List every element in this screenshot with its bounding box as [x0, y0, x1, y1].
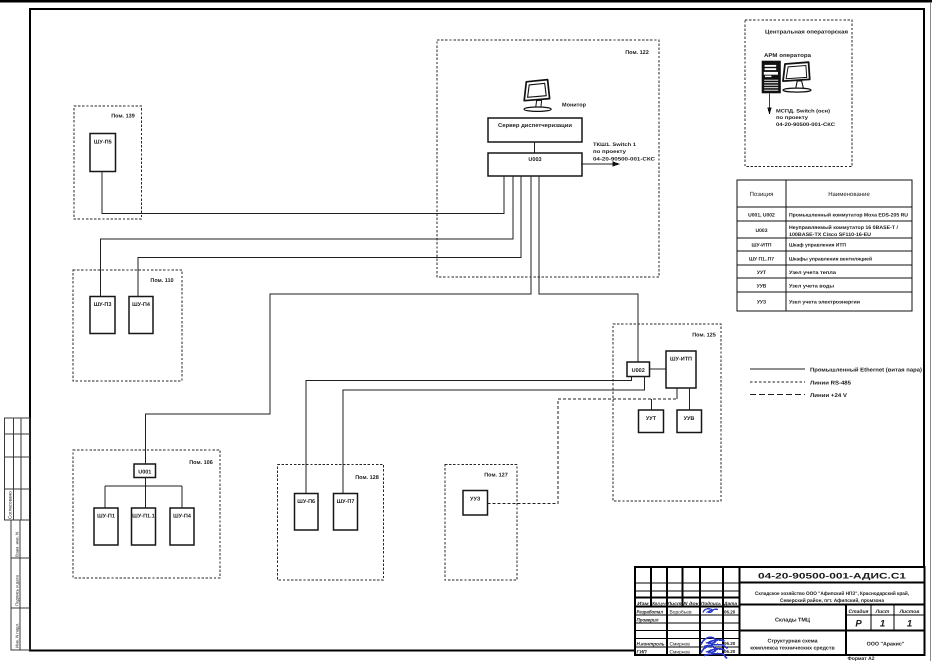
legend RS-485 line: [750, 381, 805, 383]
wire to ШУ-П1: [104, 486, 106, 508]
svg-text:Узел учета электроэнергии: Узел учета электроэнергии: [789, 300, 860, 306]
svg-text:06.20: 06.20: [724, 649, 736, 654]
meter УУВ: [677, 410, 702, 433]
svg-text:Смирнов: Смирнов: [670, 641, 691, 647]
room box Пом. 122: [437, 40, 659, 277]
wire branch to УУТ: [651, 399, 653, 410]
svg-text:Линии +24 V: Линии +24 V: [810, 393, 847, 399]
svg-text:Неуправляемый коммутатор 16 0B: Неуправляемый коммутатор 16 0BASE-T /: [789, 225, 899, 231]
svg-text:Сервер диспетчеризации: Сервер диспетчеризации: [498, 123, 572, 129]
svg-text:Н.контроль: Н.контроль: [637, 642, 665, 648]
svg-text:Центральная операторская: Центральная операторская: [765, 30, 848, 36]
room box Центральная операторская: [745, 20, 852, 167]
meter УУЗ: [463, 491, 488, 516]
signature Воробьев: [703, 609, 718, 613]
svg-text:Пом. 128: Пом. 128: [355, 475, 379, 481]
svg-text:Складское хозяйство ООО "Афипс: Складское хозяйство ООО "Афипский НПЗ", …: [755, 591, 910, 597]
svg-text:Листов: Листов: [899, 609, 920, 615]
svg-text:04-20-90500-001-АДИС.С1: 04-20-90500-001-АДИС.С1: [758, 572, 907, 581]
svg-text:Наименование: Наименование: [828, 191, 870, 198]
workstation icon: PC tower: [763, 62, 781, 93]
svg-text:ШУ-П3: ШУ-П3: [94, 302, 112, 308]
cabinet ШУ-П5: [90, 134, 116, 172]
svg-text:ГИП: ГИП: [637, 650, 648, 656]
svg-text:06.20: 06.20: [724, 641, 736, 646]
cell Инв. N подл.: [11, 608, 30, 650]
svg-text:Пом. 125: Пом. 125: [692, 333, 716, 339]
top border line: [0, 0, 932, 3]
switch U002: [627, 362, 650, 377]
svg-text:1: 1: [880, 619, 885, 630]
switch U003: [488, 153, 582, 176]
svg-text:1: 1: [907, 619, 912, 630]
server box Сервер диспетчеризации: [488, 118, 582, 142]
cabinet ШУ-П6: [295, 494, 319, 531]
wire U003 to U001: [146, 176, 532, 464]
cabinet ШУ-П1: [94, 508, 118, 545]
room box Пом. 139: [74, 106, 142, 219]
signature ГИП: [701, 646, 727, 658]
svg-text:ШУ-ИТП: ШУ-ИТП: [670, 357, 692, 363]
header row Изм Кол.уч Лист N док Подпись Дата: [637, 601, 737, 606]
svg-text:Пом. 139: Пом. 139: [111, 114, 135, 120]
cabinet ШУ-П3: [90, 297, 115, 334]
svg-text:N док: N док: [684, 601, 700, 606]
svg-text:ШУ-П1: ШУ-П1: [97, 514, 115, 520]
svg-text:Узел учета тепла: Узел учета тепла: [789, 270, 836, 276]
svg-text:по проекту: по проекту: [776, 115, 808, 121]
svg-text:Лист: Лист: [875, 609, 890, 615]
svg-text:Согласовано: Согласовано: [8, 491, 13, 519]
svg-text:Изм: Изм: [637, 601, 649, 606]
svg-text:Формат А2: Формат А2: [848, 656, 875, 661]
legend table frame: [737, 180, 912, 311]
arrow to МСПД switch: [769, 94, 771, 109]
svg-text:Взам. инв. N: Взам. инв. N: [15, 532, 20, 557]
svg-text:Промышленный коммутатор Moxa E: Промышленный коммутатор Moxa EDS-205 RU: [789, 213, 908, 219]
wire U002 to ШУ-П7: [343, 377, 644, 494]
svg-text:U003: U003: [756, 228, 768, 234]
arrow to ТКШ1: [581, 163, 614, 165]
cell Взам. инв. N: [11, 520, 30, 558]
svg-text:Структурная схема: Структурная схема: [767, 638, 817, 644]
svg-text:Промышленный Ethernet (витая п: Промышленный Ethernet (витая пара): [810, 366, 922, 373]
approval stamp grid: [5, 418, 31, 520]
wire server to U003: [534, 142, 536, 153]
room box Пом. 110: [73, 270, 182, 381]
wire U003 to ШУ-П4: [138, 176, 521, 297]
svg-text:06.20: 06.20: [724, 609, 736, 614]
svg-text:комплекса технических средств: комплекса технических средств: [750, 645, 835, 651]
svg-text:УУЗ: УУЗ: [757, 300, 766, 306]
svg-text:Подпись и дата: Подпись и дата: [15, 574, 20, 606]
cabinet ШУ-П1.1: [132, 508, 156, 545]
svg-text:U002: U002: [632, 368, 645, 374]
monitor icon: [524, 80, 551, 112]
svg-text:04-20-90500-001-СКС: 04-20-90500-001-СКС: [593, 157, 655, 163]
room box Пом. 128: [278, 465, 384, 581]
svg-text:Пом. 106: Пом. 106: [189, 460, 213, 466]
wire U001 splitter: [145, 478, 147, 509]
svg-text:Пом. 122: Пом. 122: [625, 50, 649, 56]
svg-text:Линии RS-485: Линии RS-485: [810, 381, 851, 387]
svg-text:U001: U001: [138, 470, 151, 476]
cabinet ШУ-ИТП: [666, 351, 696, 388]
workstation icon: display: [783, 62, 811, 92]
cabinet ШУ-П7: [334, 494, 358, 531]
cabinet ШУ-П4 (third cabinet in Пом.106): [170, 508, 194, 545]
header Стадия Лист Листов: [849, 609, 920, 615]
room box Пом. 125: [613, 324, 721, 501]
wire U002 to ШУ-П6: [306, 377, 631, 494]
svg-text:Разработал: Разработал: [637, 610, 664, 616]
svg-text:Кол.уч: Кол.уч: [652, 601, 666, 606]
svg-text:ШУ-П4: ШУ-П4: [173, 514, 192, 520]
svg-text:ШУ-П5: ШУ-П5: [94, 140, 112, 146]
svg-text:Инв. N подл.: Инв. N подл.: [15, 623, 20, 648]
svg-text:Северский район, пгт. Афипский: Северский район, пгт. Афипский, промзона: [780, 598, 884, 604]
wire ШУ-ИТП to УУВ: [689, 388, 691, 410]
svg-text:Пом. 127: Пом. 127: [484, 473, 508, 479]
wire U002 to ШУ-ИТП: [650, 368, 667, 370]
svg-text:УУВ: УУВ: [684, 416, 695, 422]
switch U001: [134, 464, 156, 478]
svg-text:Шкафы управления вентиляцией: Шкафы управления вентиляцией: [789, 257, 872, 263]
svg-text:Монитор: Монитор: [562, 103, 587, 109]
svg-text:Смирнов: Смирнов: [670, 649, 691, 655]
room box Пом. 127: [445, 465, 517, 581]
svg-text:УУВ: УУВ: [757, 284, 767, 290]
RS-485 bus УУЗ to ШУ-ИТП: [488, 399, 678, 504]
svg-text:ШУ-П4: ШУ-П4: [132, 302, 151, 308]
wire U003 to ШУ-П3: [101, 176, 514, 297]
cell Подпись и дата: [11, 558, 30, 608]
right sheet edge line: [930, 2, 931, 661]
svg-text:ООО "Аракис": ООО "Аракис": [867, 642, 905, 648]
svg-text:Склады ТМЦ: Склады ТМЦ: [775, 618, 810, 624]
svg-text:U001, U002: U001, U002: [748, 213, 775, 219]
svg-text:Пом. 110: Пом. 110: [150, 278, 173, 284]
svg-text:АРМ оператора: АРМ оператора: [764, 53, 812, 59]
svg-text:Проверил: Проверил: [637, 618, 659, 624]
svg-text:ШУ-П7: ШУ-П7: [337, 499, 355, 505]
svg-text:U003: U003: [528, 157, 541, 163]
svg-text:по проекту: по проекту: [593, 149, 626, 155]
svg-text:ШУ-П1.1: ШУ-П1.1: [132, 514, 154, 520]
wire U003 to ШУ-П5: [102, 172, 504, 214]
svg-text:УУТ: УУТ: [646, 416, 657, 422]
svg-text:100BASE-TX Cisco SF110-16-EU: 100BASE-TX Cisco SF110-16-EU: [789, 232, 871, 238]
svg-text:Р: Р: [855, 619, 862, 630]
svg-text:ШУ П1..П7: ШУ П1..П7: [749, 257, 774, 263]
room box Пом. 106: [73, 450, 220, 578]
meter УУТ: [639, 410, 664, 433]
wire ШУ-ИТП stub to RS-485 bus: [676, 388, 678, 399]
svg-text:ТКШ1. Switch 1: ТКШ1. Switch 1: [593, 142, 636, 148]
svg-text:ШУ-ИТП: ШУ-ИТП: [751, 243, 771, 249]
svg-text:Стадия: Стадия: [849, 609, 869, 615]
svg-text:ШУ-П6: ШУ-П6: [297, 499, 315, 505]
svg-text:Узел учета воды: Узел учета воды: [789, 284, 834, 290]
svg-text:Воробьев: Воробьев: [670, 609, 692, 615]
svg-text:УУТ: УУТ: [757, 270, 766, 276]
svg-text:УУЗ: УУЗ: [470, 497, 481, 503]
title block frame: [635, 567, 925, 655]
svg-text:МСПД. Switch (осн): МСПД. Switch (осн): [776, 108, 830, 114]
svg-text:Подпись: Подпись: [701, 601, 721, 606]
svg-text:04-20-90500-001-СКС: 04-20-90500-001-СКС: [776, 122, 835, 128]
legend +24V line: [750, 394, 805, 396]
legend Ethernet line: [750, 368, 805, 370]
signature Н.контроль: [701, 637, 728, 648]
wire to ШУ-П4: [181, 486, 183, 508]
svg-text:Шкаф управления ИТП: Шкаф управления ИТП: [789, 243, 846, 249]
svg-text:Дата: Дата: [723, 601, 737, 606]
svg-text:Позиция: Позиция: [750, 191, 774, 198]
svg-text:Лист: Лист: [666, 601, 681, 606]
wire U003 to U002: [539, 176, 638, 362]
cabinet ШУ-П4: [129, 297, 153, 334]
